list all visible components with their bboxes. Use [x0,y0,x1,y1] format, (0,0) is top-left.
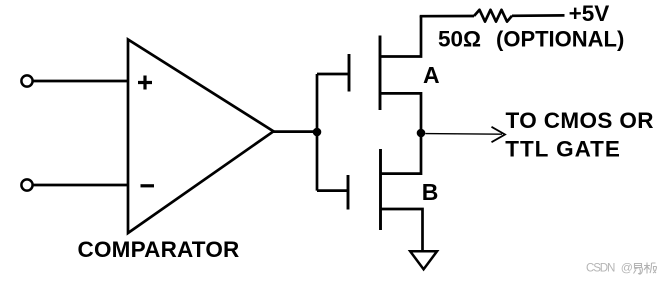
watermark CJK glyph ban [644,263,657,274]
wire: gate lead of Q_A [317,73,349,76]
watermark CJK glyph yi [634,264,643,275]
ground [410,251,437,269]
transistor Q_A channel bar [379,36,382,111]
svg-text:TO CMOS OR: TO CMOS OR [506,108,654,133]
transistor Q_B channel bar [379,149,382,230]
wire: Q_B drain lead from output node [381,133,422,174]
op-amp U1 comparator triangle [128,40,274,234]
svg-text:COMPARATOR: COMPARATOR [78,237,240,262]
arrowhead: open chevron [492,127,506,142]
svg-text:50Ω: 50Ω [438,26,481,51]
wire: output arrow line [425,133,502,136]
wire: gate lead of Q_B [317,189,348,192]
wire: resistor to +5V [512,14,565,17]
svg-text:+5V: +5V [569,1,610,26]
wire: gate rail vertical [316,74,319,191]
svg-text:@: @ [621,261,633,275]
node: gate junction dot [313,128,322,137]
svg-text:TTL GATE: TTL GATE [505,137,621,162]
input terminal circle (- input) [21,179,32,190]
node: output junction dot [417,129,426,138]
wire: Q_A source lead to output node [380,93,421,133]
svg-text:CSDN: CSDN [586,262,615,275]
+ symbol (noninverting input) [138,76,152,90]
svg-text:B: B [422,179,439,205]
wire: - input to comparator [33,184,128,187]
wire: comparator output to gate node [272,130,317,133]
wire: top rail to resistor [420,15,474,18]
svg-text:A: A [423,62,440,88]
transistor Q_B gate bar [347,175,350,210]
wire: Q_A drain lead to top rail [380,16,421,57]
resistor R1 50 ohm zigzag [474,10,512,22]
wire: + input to comparator [33,80,128,83]
transistor Q_A gate bar [348,54,351,92]
svg-text:(OPTIONAL): (OPTIONAL) [496,27,624,52]
wire: Q_B source lead to ground [381,209,423,252]
input terminal circle (+ input) [21,75,32,86]
- symbol (inverting input) [141,184,155,187]
